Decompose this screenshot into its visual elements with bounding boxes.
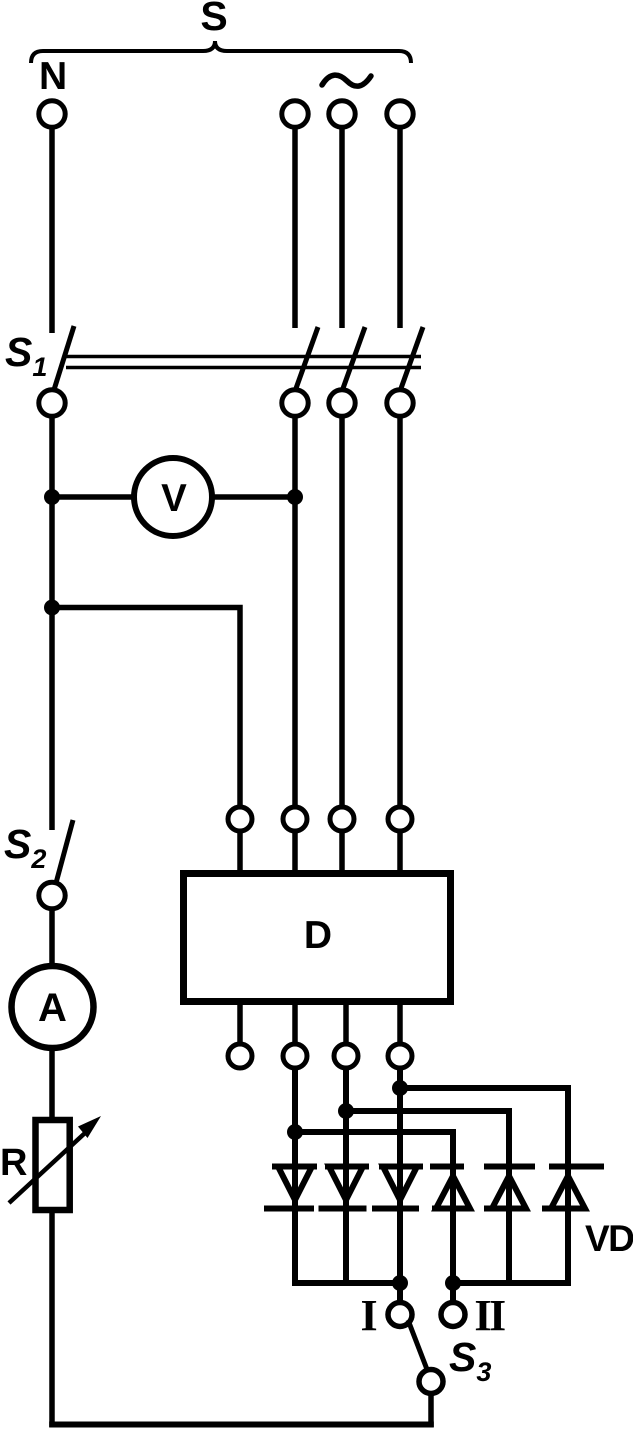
terminal II bbox=[441, 1303, 465, 1327]
junction dot node I bbox=[392, 1275, 408, 1291]
wire D top stub 2 bbox=[292, 831, 298, 874]
wire phase1 upper bbox=[292, 127, 298, 329]
wire rheostat down bbox=[49, 1210, 55, 1427]
terminal D bottom 1 bbox=[228, 1044, 252, 1068]
wire stub node II bbox=[450, 1283, 456, 1303]
brace S bbox=[31, 41, 411, 63]
wire S2 to ammeter bbox=[49, 908, 55, 966]
switch S1 contact phase1 bbox=[282, 390, 308, 416]
diode VD1 (down) bbox=[278, 1167, 312, 1201]
wire diode column 3 bbox=[397, 1068, 403, 1303]
terminal phase2 top bbox=[329, 101, 355, 127]
junction dot left rail tap bbox=[44, 600, 60, 616]
wire phase2 upper bbox=[339, 127, 345, 329]
terminal D bottom 4 bbox=[388, 1044, 412, 1068]
svg-text:S3: S3 bbox=[449, 1334, 491, 1387]
terminal D top 1 bbox=[228, 807, 252, 831]
diode VD6 (up) bbox=[551, 1176, 585, 1209]
wire N rail upper bbox=[49, 127, 55, 334]
switch S1 blade pole phase2 bbox=[341, 327, 365, 394]
voltmeter U: V bbox=[134, 458, 212, 536]
svg-text:R: R bbox=[0, 1142, 27, 1184]
switch S1 blade pole phase1 bbox=[294, 327, 318, 394]
wire D top stub 4 bbox=[397, 831, 403, 874]
wire D bottom stub 2 bbox=[292, 1002, 298, 1045]
wire bottom return bbox=[49, 1422, 434, 1428]
switch S2 contact bbox=[39, 882, 65, 908]
junction dot feed 6 bbox=[392, 1080, 408, 1096]
svg-text:I: I bbox=[360, 1291, 377, 1340]
wire phase3 upper bbox=[397, 127, 403, 329]
wire phase2 mid bbox=[339, 416, 345, 808]
switch S3 contact bbox=[419, 1370, 443, 1394]
label ~ bbox=[322, 75, 371, 86]
junction dot feed 4 bbox=[287, 1124, 303, 1140]
wire diode column 1 bbox=[292, 1068, 298, 1283]
wire phase3 mid bbox=[397, 416, 403, 808]
diode VD5 (up) bbox=[492, 1176, 526, 1209]
wire tap to D input bbox=[52, 608, 240, 808]
wire D bottom stub 3 bbox=[343, 1002, 349, 1045]
terminal D top 2 bbox=[283, 807, 307, 831]
diode VD3 (down) bbox=[383, 1167, 417, 1201]
switch S1 contact phase3 bbox=[387, 390, 413, 416]
terminal D bottom 2 bbox=[283, 1044, 307, 1068]
svg-text:D: D bbox=[304, 914, 332, 957]
dashed cathode bus (bottom) bbox=[264, 1206, 582, 1212]
switch S1 blade pole N bbox=[53, 326, 74, 393]
junction dot left rail / V bbox=[44, 489, 60, 505]
svg-text:S2: S2 bbox=[4, 821, 46, 874]
terminal N top bbox=[39, 101, 65, 127]
wire diode column 2 bbox=[343, 1068, 349, 1283]
wire right anode bus bbox=[453, 1280, 571, 1286]
wire D bottom stub 4 bbox=[397, 1002, 403, 1045]
terminal phase1 top bbox=[282, 101, 308, 127]
svg-text:S1: S1 bbox=[5, 329, 47, 382]
wire N rail mid bbox=[49, 416, 55, 831]
wire left cathode bus bbox=[292, 1280, 400, 1286]
rheostat R arrow bbox=[9, 1133, 85, 1203]
switch S1 contact N bbox=[39, 390, 65, 416]
diode VD4 (up) bbox=[436, 1176, 470, 1209]
terminal I bbox=[388, 1303, 412, 1327]
junction dot feed 5 bbox=[338, 1103, 354, 1119]
diode VD2 (down) bbox=[329, 1167, 363, 1201]
wire D top stub 1 bbox=[237, 831, 243, 874]
svg-text:II: II bbox=[474, 1291, 505, 1340]
svg-text:VD: VD bbox=[585, 1218, 633, 1259]
switch S1 linkage bar bbox=[66, 357, 421, 368]
wire D bottom stub 1 bbox=[237, 1002, 243, 1045]
svg-text:S: S bbox=[200, 0, 227, 39]
wire S3 to bottom bbox=[428, 1394, 434, 1428]
terminal D top 3 bbox=[330, 807, 354, 831]
terminal phase3 top bbox=[387, 101, 413, 127]
terminal D top 4 bbox=[388, 807, 412, 831]
junction dot phase1 / V bbox=[287, 489, 303, 505]
wire D top stub 3 bbox=[339, 831, 345, 874]
rheostat R body bbox=[36, 1120, 70, 1210]
switch S3 blade bbox=[408, 1320, 428, 1372]
ammeter U: A bbox=[12, 966, 94, 1048]
svg-text:N: N bbox=[39, 55, 67, 98]
wire feed to diode 5 bbox=[346, 1111, 509, 1283]
wire feed to diode 4 bbox=[295, 1132, 453, 1303]
wire ammeter to rheostat bbox=[49, 1048, 55, 1120]
svg-text:A: A bbox=[38, 986, 67, 1030]
wire phase1 mid bbox=[292, 416, 298, 808]
dashed anode bus (top) bbox=[272, 1164, 604, 1170]
terminal D bottom 3 bbox=[334, 1044, 358, 1068]
switch S2 blade bbox=[56, 820, 73, 883]
block D bbox=[184, 874, 451, 1002]
junction dot node II bbox=[445, 1275, 461, 1291]
svg-text:V: V bbox=[161, 477, 187, 520]
wire voltmeter branch bbox=[52, 494, 295, 500]
wire feed to diode 6 bbox=[400, 1088, 568, 1283]
switch S1 contact phase2 bbox=[329, 390, 355, 416]
switch S1 blade pole phase3 bbox=[399, 327, 423, 394]
